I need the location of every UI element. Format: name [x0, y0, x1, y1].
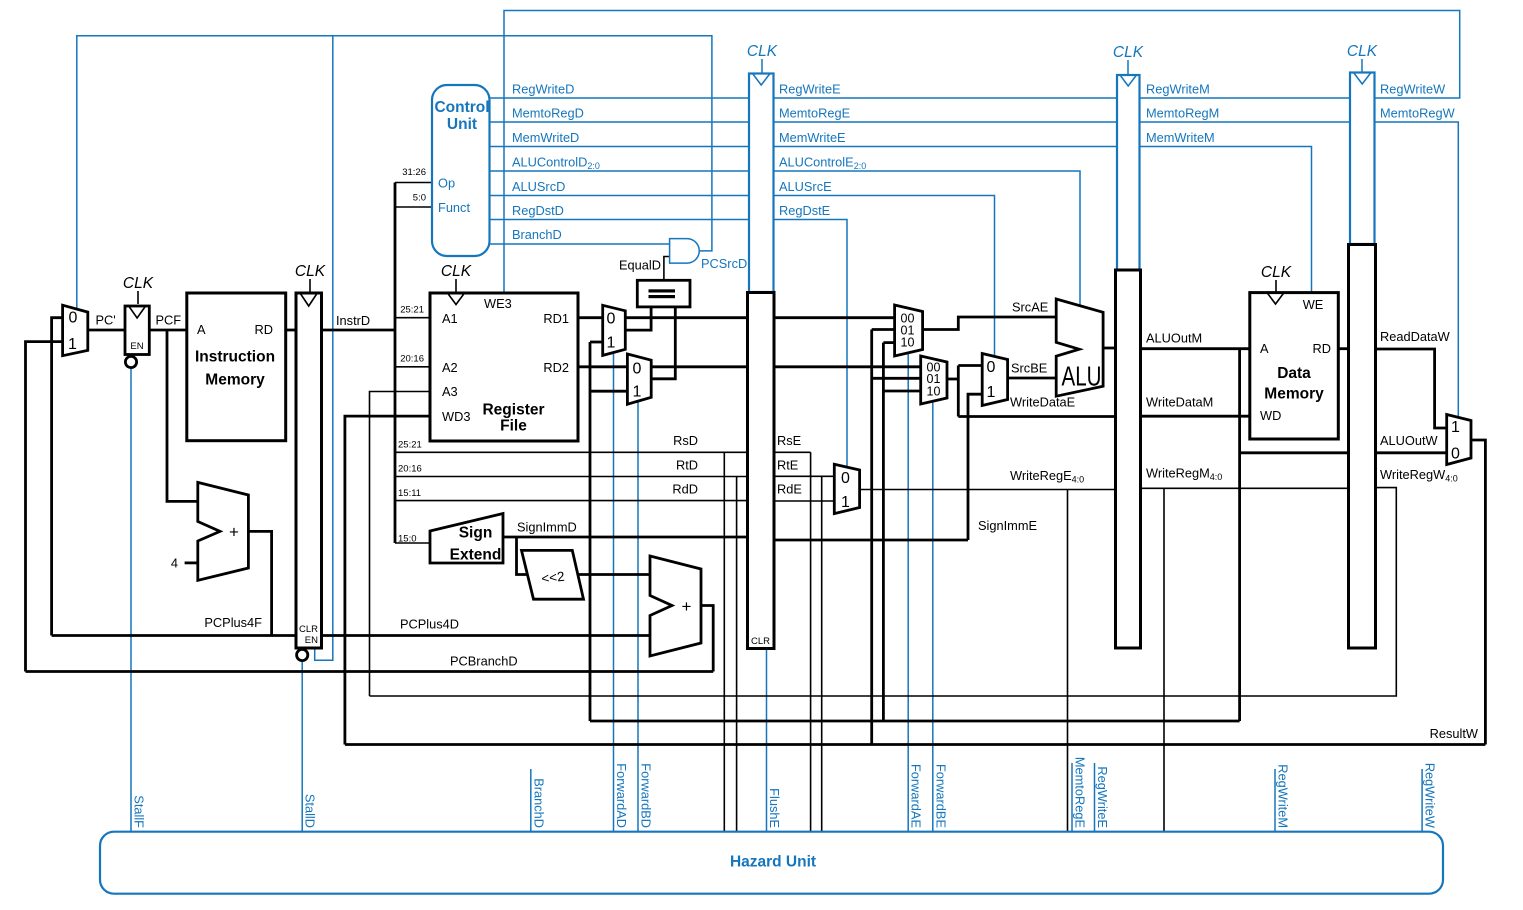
svg-text:ALUOutW: ALUOutW	[1380, 433, 1439, 448]
mux PC source select	[63, 305, 88, 356]
wire SignImmD row	[503, 536, 748, 539]
wire PCBranchD riser to PC mux input 1	[26, 342, 63, 672]
sign extend	[430, 514, 503, 564]
control unit	[432, 85, 490, 256]
svg-text:MemtoRegE: MemtoRegE	[1073, 757, 1088, 828]
wire RtE row to RegDst mux input 0	[774, 475, 834, 477]
svg-text:10: 10	[927, 385, 941, 399]
svg-text:Instruction: Instruction	[195, 349, 275, 366]
svg-text:Funct: Funct	[438, 200, 470, 215]
wire ForwardAD	[613, 353, 615, 832]
svg-text:Data: Data	[1277, 365, 1311, 382]
wire PCF riser to PC+4 adder	[167, 330, 198, 501]
wire D mux A input 1	[590, 341, 603, 344]
wire ALUOutM riser down	[1238, 349, 1241, 721]
wire MemtoRegM row	[1140, 121, 1351, 123]
wire ALUOutM to E mux A input 10	[883, 341, 894, 344]
svg-text:A2: A2	[442, 360, 458, 375]
wire D mux A output to equality comparator	[625, 307, 651, 330]
svg-text:MemWriteD: MemWriteD	[512, 130, 579, 145]
mux E forward B	[921, 356, 947, 404]
svg-text:Extend: Extend	[450, 547, 502, 564]
svg-text:1: 1	[633, 384, 642, 401]
svg-text:PCBranchD: PCBranchD	[450, 654, 518, 669]
wire MemtoRegD row	[490, 121, 750, 123]
wire to SrcB mux input 0	[958, 364, 982, 367]
wire RD1 row continuation to ID/EX register	[625, 316, 747, 319]
wire InstrD row	[322, 329, 396, 332]
mux D forward A	[603, 305, 626, 355]
svg-text:31:26: 31:26	[402, 167, 426, 178]
svg-text:5:0: 5:0	[413, 193, 426, 204]
svg-text:RsE: RsE	[777, 433, 801, 448]
wire WriteRegE row	[860, 489, 1116, 491]
gate AND branch	[670, 239, 700, 264]
svg-text:0: 0	[987, 359, 996, 376]
svg-text:1: 1	[68, 336, 77, 353]
svg-text:ALUSrcE: ALUSrcE	[779, 179, 832, 194]
wire ALUControlD row	[490, 170, 750, 172]
wire RegDstE to RegDst mux select	[774, 220, 848, 468]
wire RsD tap to hazard unit	[723, 452, 725, 831]
svg-text:ALUControlE2:0: ALUControlE2:0	[779, 155, 866, 172]
svg-text:MemWriteM: MemWriteM	[1146, 130, 1215, 145]
svg-text:20:16: 20:16	[400, 354, 424, 365]
wire RegWriteM row	[1140, 97, 1351, 99]
clock CLK at IF/ID register	[295, 263, 326, 292]
wire WriteRegM tap to hazard unit	[1163, 488, 1165, 831]
wire WriteRegE tap to hazard unit	[1067, 490, 1069, 832]
wire RegWriteE hazard stub	[1094, 763, 1096, 832]
wire RD2E row to E mux B	[774, 365, 921, 368]
wire ALUOutW to result mux input 0	[1376, 451, 1447, 454]
wire RegWriteW hazard stub	[1421, 769, 1423, 832]
svg-text:0: 0	[633, 361, 642, 378]
wire RegDstD row	[490, 219, 750, 221]
svg-text:RegWriteE: RegWriteE	[779, 82, 841, 97]
wire WriteRegW row to A3 riser	[370, 488, 1397, 696]
wire Funct tap 5:0	[395, 206, 432, 208]
wire ALU output to EX/MEM register	[1103, 347, 1115, 350]
svg-text:SignImmE: SignImmE	[978, 518, 1037, 533]
wire MemtoRegW to result mux select	[1375, 122, 1459, 417]
wire RD1E row to E mux A	[774, 316, 895, 319]
wire ALUOutM to MEM/WB register (ALUOutW feed)	[1240, 451, 1349, 454]
svg-text:Register: Register	[482, 402, 544, 419]
svg-text:CLK: CLK	[295, 263, 326, 280]
svg-text:File: File	[500, 418, 527, 435]
svg-text:MemtoRegD: MemtoRegD	[512, 106, 584, 121]
wire ResultW to E mux B input 01	[872, 377, 921, 380]
wire RsE row	[774, 451, 811, 453]
wire branch adder output to PCBranchD row	[701, 606, 713, 672]
wire ALUSrcE to SrcB mux select	[774, 196, 995, 357]
svg-text:RegWriteM: RegWriteM	[1276, 764, 1291, 828]
mux E forward A	[895, 305, 923, 356]
wire PCPlus4F row	[52, 634, 296, 637]
svg-text:ForwardAE: ForwardAE	[909, 764, 924, 828]
clock CLK at MEM/WB register	[1347, 43, 1378, 72]
wire RdD row	[395, 500, 748, 502]
wire SrcAE mux A output to ALU	[923, 317, 1057, 330]
wire MemtoRegE row	[774, 121, 1118, 123]
svg-text:CLK: CLK	[747, 43, 778, 60]
wire instruction bus vertical	[394, 183, 397, 544]
svg-text:RdE: RdE	[777, 482, 802, 497]
svg-text:WD: WD	[1260, 408, 1281, 423]
alu U1	[1056, 299, 1103, 396]
wire ReadDataW to result mux input 1	[1376, 349, 1447, 428]
wire ALUOutM riser to E muxes	[882, 343, 885, 721]
wire RegWriteM hazard stub	[1274, 769, 1276, 832]
svg-text:1: 1	[1451, 419, 1460, 436]
wire 15:0 tap to sign extend	[395, 542, 430, 544]
svg-text:Op: Op	[438, 176, 455, 191]
wire A1 tap 25:21	[395, 317, 430, 319]
wire MemWriteE row	[774, 146, 1118, 148]
svg-text:StallF: StallF	[132, 795, 147, 828]
wire WD3 from ResultW riser	[345, 416, 430, 744]
svg-text:A1: A1	[442, 311, 458, 326]
svg-text:ForwardAD: ForwardAD	[614, 763, 629, 828]
svg-text:RD1: RD1	[543, 311, 569, 326]
wire StallD	[301, 661, 303, 832]
svg-text:Memory: Memory	[205, 372, 265, 389]
wire EqualD to AND gate	[664, 257, 670, 281]
wire ResultW row	[345, 743, 1486, 746]
wire RegWriteE row	[774, 97, 1118, 99]
wire SignImmD tap to shifter	[517, 537, 528, 575]
wire RegWriteD row	[490, 97, 750, 99]
svg-text:CLK: CLK	[1347, 43, 1378, 60]
svg-text:Memory: Memory	[1264, 386, 1324, 403]
svg-text:4: 4	[171, 556, 178, 571]
svg-text:25:21: 25:21	[398, 440, 422, 451]
svg-text:RegWriteD: RegWriteD	[512, 82, 574, 97]
clock CLK at PC register	[123, 275, 154, 304]
svg-text:PCPlus4D: PCPlus4D	[400, 617, 459, 632]
svg-text:ALUControlD2:0: ALUControlD2:0	[512, 155, 600, 172]
svg-text:CLK: CLK	[123, 275, 154, 292]
svg-text:20:16: 20:16	[398, 464, 422, 475]
wire PC-prime mux output to PC register	[88, 329, 125, 332]
svg-text:10: 10	[901, 336, 915, 350]
svg-text:CLR: CLR	[299, 624, 318, 635]
wire RD2 row continuation to ID/EX register	[651, 365, 747, 368]
svg-text:ForwardBD: ForwardBD	[639, 763, 654, 828]
svg-text:ALU: ALU	[1062, 361, 1102, 392]
clock CLK at data memory	[1261, 264, 1292, 292]
wire PCSrcD top feedback	[77, 36, 712, 309]
svg-text:Sign: Sign	[459, 525, 493, 542]
wire ForwardAE	[907, 353, 909, 832]
svg-text:EN: EN	[130, 341, 143, 352]
svg-text:WriteDataE: WriteDataE	[1010, 395, 1075, 410]
svg-text:MemWriteE: MemWriteE	[779, 130, 846, 145]
wire RegWriteW to register file WE3	[504, 11, 1460, 294]
wire ALUOutM riser to D forward muxes	[589, 342, 592, 721]
wire PC+4 adder output to PCPlus4F row	[248, 531, 271, 635]
svg-text:ReadDataW: ReadDataW	[1380, 329, 1451, 344]
instruction memory	[187, 293, 286, 441]
wire RD2 row to D forward mux B	[578, 365, 627, 368]
wire WriteDataM row	[1141, 415, 1250, 418]
wire result mux output ResultW	[1471, 440, 1485, 745]
wire PCPlus4D row to branch adder	[322, 634, 651, 637]
wire mux B output split to SrcB mux and WriteDataE	[957, 366, 960, 417]
wire RsE tap to hazard unit	[810, 452, 812, 831]
svg-text:+: +	[229, 523, 239, 542]
svg-text:SignImmD: SignImmD	[517, 520, 577, 535]
wire RsD row	[395, 451, 748, 453]
wire D mux B input 1	[590, 390, 627, 393]
svg-text:BranchD: BranchD	[512, 227, 562, 242]
hazard unit	[100, 832, 1443, 894]
register EX/MEM control (blue)	[1117, 75, 1140, 270]
svg-text:WriteDataM: WriteDataM	[1146, 395, 1213, 410]
wire mux B output	[947, 378, 958, 381]
svg-text:RegWriteW: RegWriteW	[1423, 763, 1438, 829]
wire constant 4 into adder	[185, 562, 198, 565]
wire ResultW riser to E muxes	[870, 330, 873, 745]
svg-text:RegDstD: RegDstD	[512, 203, 564, 218]
svg-text:PCPlus4F: PCPlus4F	[204, 615, 262, 630]
svg-text:PCSrcD: PCSrcD	[701, 256, 747, 271]
svg-text:RegWriteW: RegWriteW	[1380, 82, 1446, 97]
wire BranchD row	[490, 243, 670, 245]
svg-text:Hazard Unit: Hazard Unit	[730, 854, 816, 871]
register EX/MEM pipeline	[1116, 270, 1141, 648]
wire ResultW to E mux A input 01	[872, 328, 895, 331]
svg-text:CLK: CLK	[1113, 44, 1144, 61]
svg-text:0: 0	[841, 470, 850, 487]
svg-text:PCF: PCF	[156, 313, 182, 328]
clock CLK at EX/MEM register	[1113, 44, 1144, 74]
svg-text:MemtoRegE: MemtoRegE	[779, 106, 850, 121]
svg-text:WE: WE	[1303, 297, 1324, 312]
wire MemWriteM to data memory WE	[1140, 147, 1312, 293]
svg-text:MemtoRegW: MemtoRegW	[1380, 106, 1456, 121]
wire PCSrcD to IF/ID CLR	[315, 36, 333, 660]
svg-text:+: +	[682, 597, 692, 616]
svg-text:A: A	[1260, 341, 1269, 356]
svg-text:CLR: CLR	[751, 636, 770, 647]
wire ALUSrcD row	[490, 195, 750, 197]
svg-text:0: 0	[607, 311, 616, 328]
svg-text:RegDstE: RegDstE	[779, 203, 830, 218]
register PC	[125, 306, 149, 368]
svg-text:1: 1	[841, 494, 850, 511]
mux RegDst	[834, 464, 859, 513]
mux ALUSrc	[982, 354, 1007, 406]
wire SignImmE riser to SrcB mux input 1	[968, 394, 982, 540]
wire MemtoRegE hazard stub	[1071, 763, 1073, 832]
wire instruction memory RD to IF/ID register	[286, 329, 296, 332]
svg-text:SrcBE: SrcBE	[1011, 361, 1047, 376]
svg-text:SrcAE: SrcAE	[1012, 300, 1048, 315]
register ID/EX pipeline	[748, 293, 775, 649]
clock CLK at ID/EX control register	[747, 43, 778, 73]
svg-text:RD: RD	[255, 322, 273, 337]
svg-text:WD3: WD3	[442, 409, 470, 424]
svg-text:RtE: RtE	[777, 458, 798, 473]
svg-text:RD: RD	[1313, 341, 1331, 356]
register ID/EX control (blue)	[749, 74, 774, 293]
wire ALUOutM forward row	[590, 720, 1240, 723]
svg-text:1: 1	[987, 384, 996, 401]
svg-text:BranchD: BranchD	[531, 778, 546, 828]
wire PCBranchD row	[26, 670, 714, 673]
wire SignImmE row	[774, 539, 968, 542]
svg-text:Unit: Unit	[447, 116, 477, 133]
svg-text:RegWriteE: RegWriteE	[1095, 766, 1110, 828]
register MEM/WB control (blue)	[1350, 73, 1375, 245]
wire D mux B output to equality comparator	[651, 307, 675, 379]
wire ForwardBD	[637, 401, 639, 832]
svg-text:ALUOutM: ALUOutM	[1146, 331, 1202, 346]
wire WriteDataE row	[958, 415, 1115, 418]
register MEM/WB pipeline	[1349, 245, 1376, 649]
svg-text:ALUSrcD: ALUSrcD	[512, 179, 565, 194]
svg-text:PC': PC'	[96, 313, 116, 328]
svg-text:15:0: 15:0	[398, 534, 417, 545]
svg-text:WE3: WE3	[484, 296, 512, 311]
svg-text:CLK: CLK	[441, 263, 472, 280]
data memory	[1250, 293, 1339, 439]
wire WriteRegM row	[1141, 487, 1349, 489]
wire RtD tap to hazard unit	[736, 477, 738, 832]
svg-text:EN: EN	[305, 635, 318, 646]
svg-text:ForwardBE: ForwardBE	[933, 764, 948, 828]
comparator equality	[637, 280, 690, 307]
wire A3 from WriteRegW riser	[370, 392, 431, 697]
svg-text:0: 0	[1451, 445, 1460, 462]
clock CLK at register file	[441, 263, 472, 292]
wire ForwardBE	[932, 401, 934, 832]
svg-text:0: 0	[69, 310, 78, 327]
svg-text:InstrD: InstrD	[336, 313, 370, 328]
wire RD1 row to D forward mux A	[578, 316, 603, 319]
wire SrcBE SrcB mux output to ALU	[1008, 377, 1057, 380]
svg-text:StallD: StallD	[303, 794, 318, 828]
wire ALUOutM row to data memory A	[1141, 347, 1250, 350]
svg-text:15:11: 15:11	[398, 488, 421, 499]
svg-text:A3: A3	[442, 384, 458, 399]
svg-text:CLK: CLK	[1261, 264, 1292, 281]
wire MemWriteD row	[490, 146, 750, 148]
svg-text:Control: Control	[434, 99, 489, 116]
adder PC branch	[650, 556, 701, 656]
wire PCF register to instruction memory A	[149, 329, 187, 332]
wire FlushE	[766, 649, 768, 832]
svg-text:ResultW: ResultW	[1430, 726, 1479, 741]
shifter left 2	[522, 550, 584, 599]
wire StallF	[130, 368, 132, 832]
register IF/ID pipeline	[296, 293, 322, 661]
svg-text:A: A	[197, 322, 206, 337]
svg-text:RsD: RsD	[673, 433, 698, 448]
wire BranchD hazard stub	[530, 769, 532, 832]
wire RdE row to RegDst mux input 1	[774, 500, 834, 502]
wire A2 tap 20:16	[395, 366, 430, 368]
svg-text:<<2: <<2	[541, 569, 566, 586]
wire shifter output to branch adder	[579, 573, 651, 576]
register file	[430, 293, 578, 441]
wire data memory RD to MEM/WB register	[1338, 347, 1348, 350]
svg-text:25:21: 25:21	[400, 305, 424, 316]
svg-text:FlushE: FlushE	[767, 788, 782, 828]
mux D forward B	[627, 354, 651, 404]
wire PCPlus4F riser to PC mux input 0	[52, 318, 63, 636]
svg-text:RtD: RtD	[676, 458, 698, 473]
svg-text:EqualD: EqualD	[619, 258, 661, 273]
adder PC+4	[198, 482, 249, 580]
wire ALUControlE to ALU	[774, 171, 1081, 306]
svg-text:RD2: RD2	[543, 360, 569, 375]
svg-text:1: 1	[607, 335, 616, 352]
svg-text:MemtoRegM: MemtoRegM	[1146, 106, 1219, 121]
wire ALUOutM to E mux B input 10	[883, 390, 920, 393]
wire Op tap 31:26	[395, 182, 432, 184]
svg-text:RdD: RdD	[672, 482, 698, 497]
wire RtD row	[395, 476, 748, 478]
mux result writeback	[1447, 415, 1471, 465]
svg-text:RegWriteM: RegWriteM	[1146, 82, 1210, 97]
wire RtE tap to hazard unit	[821, 476, 823, 831]
